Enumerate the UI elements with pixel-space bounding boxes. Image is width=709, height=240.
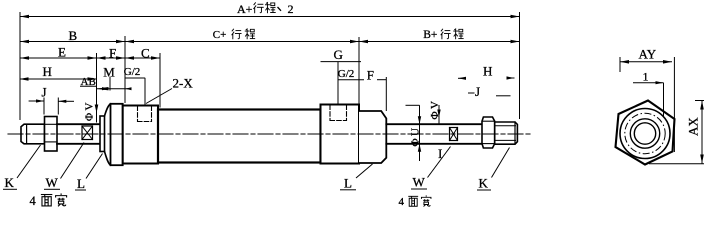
pitch circle dash-dot [625,113,665,153]
AX top stub [695,100,704,102]
extension port centre right [337,62,339,104]
AX dimension line [701,101,703,164]
centerline main view [8,133,530,135]
svg-text:4: 4 [30,194,37,208]
AY dimension line [620,57,704,164]
svg-text:G/2: G/2 [338,68,355,80]
svg-text:J: J [475,84,480,99]
dim 1 shelf [633,82,664,84]
phiU shelf and line right [406,104,420,106]
AB underline [80,85,97,87]
AY extension lines [619,57,621,72]
rod nut right [482,117,495,148]
dimension line E F C row [20,57,160,59]
dimension line H left [20,78,97,80]
svg-text:B+: B+ [423,29,437,41]
svg-text:1: 1 [643,69,649,83]
svg-text:W: W [46,175,59,190]
L left underline and leader [75,189,86,191]
front cover left [111,104,123,165]
dimension line A+stroke [20,16,520,18]
piston rod left [57,123,100,125]
dimension shelf G/2 left [125,77,145,79]
hexagon body end view [616,101,675,165]
svg-text:F: F [367,68,374,83]
port hidden hole right [330,105,347,121]
J right dimension bars [468,92,475,94]
dimension line M [97,88,132,90]
svg-text:2-X: 2-X [173,76,194,91]
J left dimension bars [29,100,44,102]
extension line x359 cap right face [358,37,360,104]
leader 2-X [146,89,172,104]
K left underline and leader [3,188,17,190]
svg-text:C: C [141,46,150,61]
svg-text:W: W [413,175,426,190]
outer circle [620,109,670,159]
svg-text:K: K [5,175,15,190]
W left underline and leader [44,188,60,190]
svg-text:E: E [58,44,66,59]
extension line x110 cover front [109,77,111,91]
front cover flare left [105,104,111,116]
nut facet lines left [45,123,58,125]
L right underline and leader [340,189,356,191]
svg-text:M: M [103,65,115,80]
rod collar left [100,116,105,152]
svg-text:B: B [69,28,78,43]
svg-text:ΦU: ΦU [410,126,422,147]
svg-text:G: G [334,47,343,62]
phiV line right [438,105,440,124]
G/2 and F shelf right [338,79,364,81]
AX bottom extension [649,163,704,165]
thread circle outer [630,119,659,148]
J left extension lines [43,98,45,115]
svg-text:ΦV: ΦV [429,99,441,120]
svg-text:AB: AB [81,76,96,88]
svg-text:H: H [483,64,492,79]
svg-text:4: 4 [399,196,405,208]
rod nut left [45,117,58,152]
wrench flats symbol left [82,126,93,140]
extension line left rod tip [19,12,21,120]
svg-text:K: K [479,176,489,191]
svg-text:L: L [344,176,352,191]
thread circle inner [634,123,655,144]
piston rod right [386,123,482,125]
rod thread right [495,122,518,144]
svg-text:AY: AY [639,47,657,62]
svg-text:2: 2 [288,2,294,16]
svg-text:C+: C+ [213,29,227,41]
head cap right [321,105,360,164]
svg-text:I: I [438,146,442,161]
H right arrow tails [458,77,466,79]
svg-text:H: H [43,64,52,79]
svg-text:AX: AX [686,117,701,136]
W right underline and leader [411,188,427,190]
arrowheads [20,15,520,152]
cylinder tube [158,110,321,163]
G shelf right [321,61,362,63]
svg-text:ΦV: ΦV [84,100,96,121]
extension line x160 tube start [159,53,161,108]
thread chamfer line left [26,124,28,144]
head cap left [123,106,158,164]
dimension line B row [20,41,520,43]
extension gland face right [385,77,387,111]
svg-text:G/2: G/2 [124,66,141,78]
gland nut right [359,111,386,163]
svg-text:A+: A+ [237,2,253,16]
wrench flats symbol right [450,128,458,141]
K right underline and leader [477,189,491,191]
dim 1 extension [663,83,665,118]
rod thread left [21,124,45,144]
extension port centre left [144,78,146,106]
port hidden hole left [138,106,152,122]
svg-text:J: J [42,85,47,100]
extension line x125 cover face [124,36,126,103]
svg-text:F: F [109,46,116,61]
svg-text:L: L [77,176,85,191]
extension line right thread tip [519,12,521,119]
extension line x96.5 phiV left [96,53,98,123]
